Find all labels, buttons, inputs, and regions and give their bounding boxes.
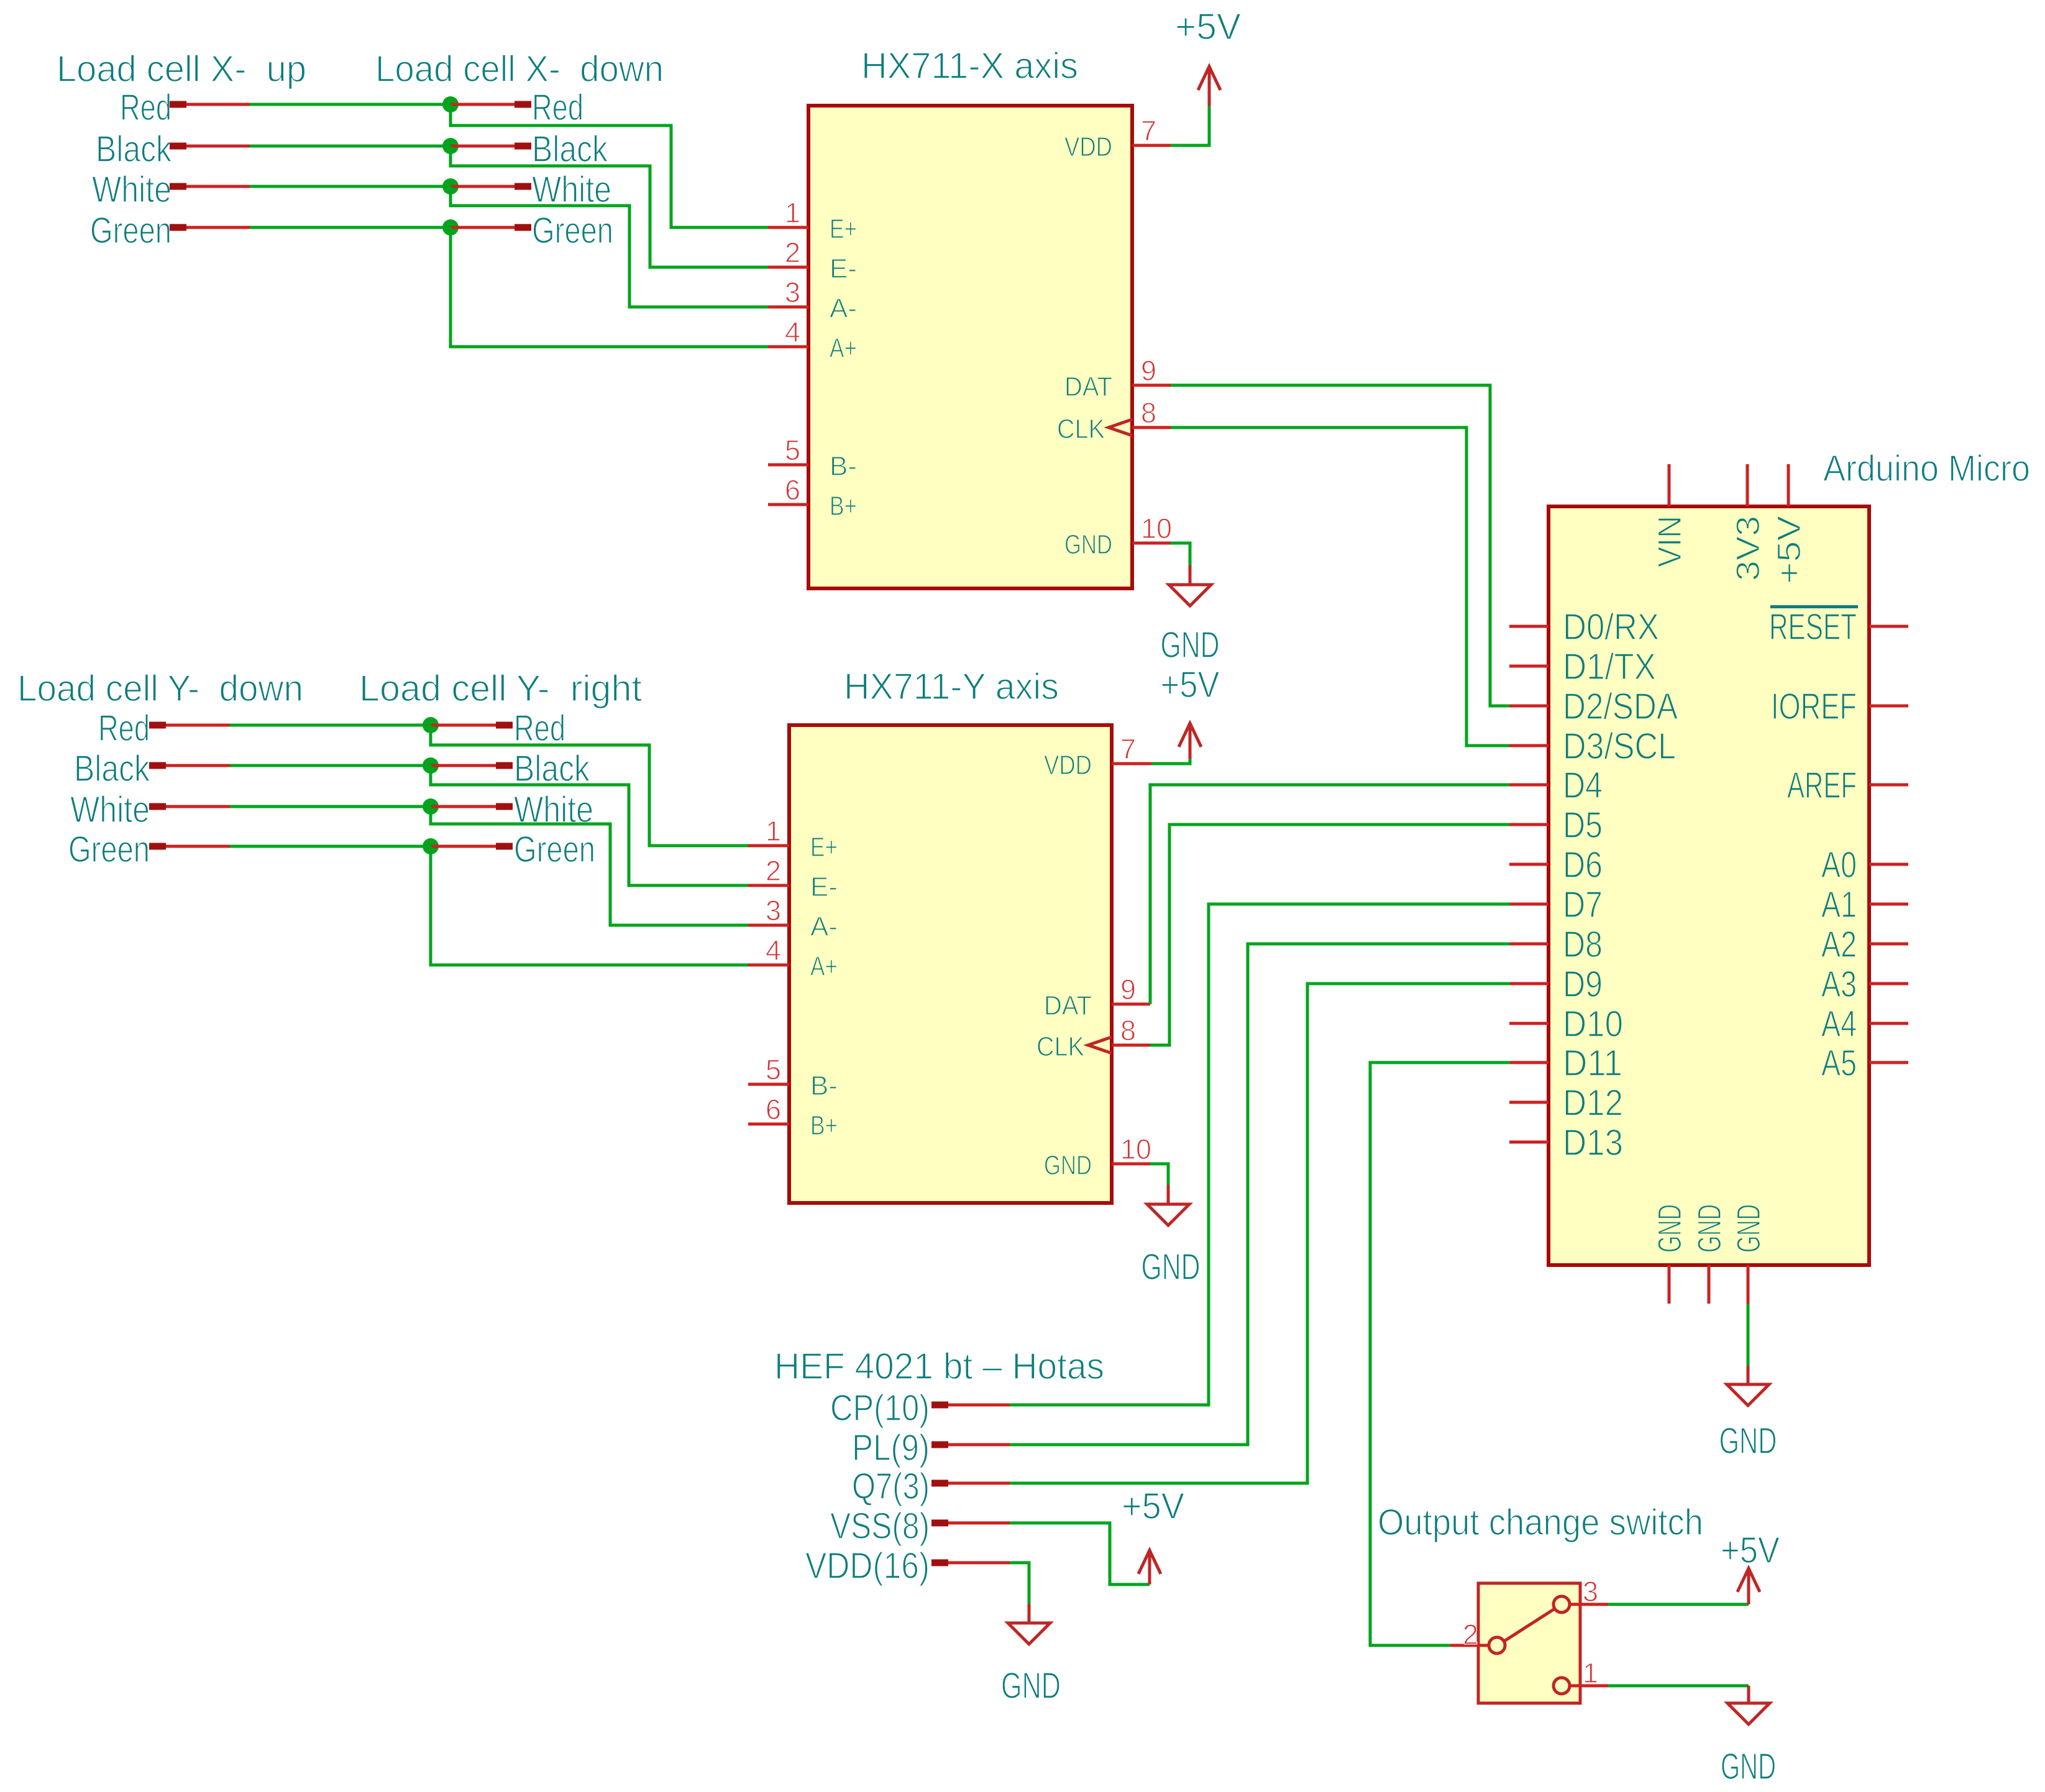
IC U-HX711-X body <box>808 106 1132 588</box>
junction X Green <box>442 219 459 235</box>
load cell X-up pin Black: stub <box>170 143 186 150</box>
power symbol +5V (HX711-Y VDD) <box>1189 726 1192 759</box>
svg-text:Load cell X- up: Load cell X- up <box>57 48 306 89</box>
svg-text:Black: Black <box>96 129 172 170</box>
svg-text:CLK: CLK <box>1057 414 1105 444</box>
wire switch pin 1 to ground <box>1608 1685 1749 1688</box>
power symbol +5V (switch) <box>1747 1571 1750 1604</box>
HX711-X pin 4 (A+) line <box>768 345 808 349</box>
svg-text:7: 7 <box>1120 733 1136 765</box>
svg-text:Black: Black <box>514 748 590 789</box>
wire HX711-X GND to ground <box>1171 543 1190 565</box>
Arduino pin AREF line <box>1869 784 1908 787</box>
svg-text:GND: GND <box>1064 529 1112 560</box>
junction X White <box>442 178 459 194</box>
svg-text:D10: D10 <box>1563 1003 1623 1045</box>
svg-text:VDD: VDD <box>1064 132 1112 162</box>
ground symbol (HX711-X) <box>1189 565 1192 585</box>
Arduino pin RESET line <box>1869 625 1908 628</box>
Arduino pin D10 line <box>1509 1022 1549 1025</box>
svg-text:PL(9): PL(9) <box>852 1427 930 1468</box>
svg-text:A3: A3 <box>1821 964 1857 1005</box>
svg-text:E-: E- <box>830 254 857 284</box>
svg-text:D11: D11 <box>1563 1043 1622 1084</box>
wire X Black junction to HX711-X E- <box>451 146 768 267</box>
svg-text:Green: Green <box>514 829 595 870</box>
wire load-cell-X Black (up to junction) <box>250 145 451 148</box>
HX711-X pin 8 (CLK) line <box>1132 426 1171 429</box>
Arduino pin D11 line <box>1509 1061 1549 1064</box>
switch pin 2 contact circle <box>1489 1637 1505 1653</box>
svg-text:6: 6 <box>766 1094 781 1125</box>
junction X Black <box>442 138 459 154</box>
svg-text:D4: D4 <box>1563 765 1603 806</box>
svg-text:GND: GND <box>1161 624 1220 665</box>
junction Y White <box>423 798 439 815</box>
svg-text:Red: Red <box>120 87 172 128</box>
svg-text:GND: GND <box>1719 1420 1777 1461</box>
svg-text:D2/SDA: D2/SDA <box>1563 686 1678 727</box>
wire HEF4021 VSS(8) to +5V <box>1010 1523 1150 1584</box>
load cell X-up pin White: pin line <box>186 185 250 188</box>
load cell X-up pin Black: pin line <box>186 145 250 148</box>
svg-text:A0: A0 <box>1821 844 1857 885</box>
HX711-X pin 6 (B+) line <box>768 503 808 506</box>
svg-text:Red: Red <box>514 708 565 749</box>
svg-text:A-: A- <box>810 912 838 942</box>
svg-text:Load cell Y- right: Load cell Y- right <box>359 668 642 709</box>
svg-text:White: White <box>532 169 611 210</box>
Arduino pin D13 line <box>1509 1141 1549 1144</box>
HEF4021 pin CP(10): pin line <box>948 1404 1010 1407</box>
wire load-cell-Y Green (down to junction) <box>230 845 431 848</box>
svg-text:A2: A2 <box>1821 924 1857 965</box>
Arduino pin D7 line <box>1509 903 1549 906</box>
Arduino top pin VIN line <box>1668 464 1671 506</box>
load cell X-down pin Red: pin line <box>451 103 515 106</box>
svg-text:A1: A1 <box>1821 884 1857 925</box>
svg-text:A5: A5 <box>1821 1043 1857 1084</box>
Arduino pin IOREF line <box>1869 705 1908 708</box>
svg-text:+5V: +5V <box>1771 515 1808 584</box>
wire load-cell-X Red (up to junction) <box>250 103 451 106</box>
RESET overline <box>1770 605 1858 608</box>
wire HX711-X VDD to +5V <box>1171 106 1209 145</box>
wire Y Red junction to HX711-Y E+ <box>431 725 748 846</box>
switch pin 2 line <box>1450 1644 1489 1647</box>
wire Y Black junction to HX711-Y E- <box>431 766 748 885</box>
load cell Y-down pin Red: stub <box>149 722 166 729</box>
wire HEF4021 CP(10) to Arduino D7 <box>1010 904 1510 1405</box>
wire +5V to HX711-Y VDD <box>1151 759 1190 764</box>
svg-text:3V3: 3V3 <box>1730 516 1767 581</box>
svg-text:DAT: DAT <box>1064 372 1112 402</box>
ground symbol (HX711-Y) <box>1167 1185 1170 1204</box>
ground symbol (HEF4021 VDD) <box>1028 1604 1031 1623</box>
svg-text:9: 9 <box>1141 355 1156 386</box>
load cell Y-right pin Black: stub <box>496 762 513 769</box>
svg-text:3: 3 <box>1583 1576 1598 1607</box>
svg-text:GND: GND <box>1691 1204 1728 1253</box>
svg-text:8: 8 <box>1141 397 1156 429</box>
svg-text:+5V: +5V <box>1161 664 1220 705</box>
load cell X-up pin Green: pin line <box>186 226 250 229</box>
load cell X-down pin White: pin line <box>451 185 515 188</box>
svg-text:5: 5 <box>766 1054 781 1086</box>
load cell Y-down pin Black: stub <box>149 762 166 769</box>
svg-text:VSS(8): VSS(8) <box>830 1506 930 1547</box>
svg-text:E+: E+ <box>830 214 857 244</box>
load cell Y-right pin White: pin line <box>431 805 496 808</box>
HX711-X pin 9 (DAT) line <box>1132 384 1171 387</box>
switch pin 3 contact circle <box>1553 1596 1570 1612</box>
svg-text:1: 1 <box>766 815 781 847</box>
svg-text:7: 7 <box>1141 115 1156 147</box>
ground symbol (Arduino) <box>1747 1366 1750 1384</box>
wire HX711-Y CLK to Arduino D5 <box>1150 825 1510 1045</box>
svg-text:Arduino Micro: Arduino Micro <box>1823 448 2030 489</box>
svg-text:D7: D7 <box>1563 884 1603 925</box>
Arduino pin D8 line <box>1509 943 1549 946</box>
Arduino pin A4 line <box>1869 1022 1908 1025</box>
svg-text:A-: A- <box>830 293 857 324</box>
HEF4021 pin VDD(16): stub <box>931 1560 948 1566</box>
Arduino pin D1/TX line <box>1509 665 1549 668</box>
svg-text:Load cell X- down: Load cell X- down <box>375 48 664 89</box>
svg-text:2: 2 <box>766 855 781 887</box>
svg-text:4: 4 <box>766 935 781 966</box>
svg-text:Black: Black <box>532 129 608 170</box>
svg-text:8: 8 <box>1120 1015 1136 1046</box>
wire Arduino D11 to switch pin 2 <box>1370 1063 1510 1645</box>
Arduino pin D3/SCL line <box>1509 744 1549 747</box>
load cell X-down pin Green: pin line <box>451 226 515 229</box>
HX711-Y pin 10 (GND) line <box>1112 1163 1150 1166</box>
svg-text:HX711-Y axis: HX711-Y axis <box>844 666 1059 707</box>
switch pin 3 line <box>1570 1603 1608 1606</box>
svg-text:10: 10 <box>1141 513 1172 544</box>
svg-text:D9: D9 <box>1563 964 1603 1005</box>
load cell X-up pin Green: stub <box>170 224 186 231</box>
svg-text:VIN: VIN <box>1652 516 1688 567</box>
HEF4021 pin VSS(8): pin line <box>948 1522 1010 1525</box>
power symbol +5V (HX711-X VDD) <box>1208 69 1211 106</box>
HX711-Y pin 9 (DAT) line <box>1112 1003 1150 1006</box>
load cell X-down pin Green: stub <box>515 224 531 231</box>
IC Arduino Micro body <box>1549 506 1869 1265</box>
svg-text:VDD(16): VDD(16) <box>805 1545 930 1586</box>
svg-text:B-: B- <box>810 1071 838 1101</box>
load cell X-up pin White: stub <box>170 183 186 190</box>
HX711-Y pin 3 (A-) line <box>748 924 789 927</box>
IC U-HX711-Y body <box>789 725 1112 1203</box>
svg-text:CLK: CLK <box>1036 1031 1084 1062</box>
svg-text:D0/RX: D0/RX <box>1563 606 1659 647</box>
wire HX711-X CLK to Arduino D3/SCL <box>1171 427 1510 746</box>
svg-text:Q7(3): Q7(3) <box>852 1466 930 1507</box>
load cell X-up pin Red: stub <box>170 101 186 108</box>
wire Y White junction to HX711-Y A- <box>431 807 748 925</box>
svg-text:GND: GND <box>1731 1204 1767 1253</box>
HEF4021 pin VSS(8): stub <box>931 1520 948 1527</box>
HX711-Y pin 8 (CLK) line <box>1112 1044 1150 1047</box>
svg-text:Green: Green <box>68 829 150 870</box>
svg-text:Red: Red <box>532 87 583 128</box>
Arduino pin D2/SDA line <box>1509 705 1549 708</box>
load cell X-down pin Red: stub <box>515 101 531 108</box>
load cell Y-right pin Red: stub <box>496 722 513 729</box>
junction Y Green <box>423 838 439 854</box>
Arduino pin A3 line <box>1869 982 1908 985</box>
HEF4021 pin PL(9): pin line <box>948 1443 1010 1447</box>
svg-text:AREF: AREF <box>1787 765 1857 806</box>
svg-text:+5V: +5V <box>1721 1530 1780 1571</box>
wire HX711-Y DAT to Arduino D4 <box>1150 785 1510 1004</box>
switch pin 1 contact circle <box>1553 1678 1570 1694</box>
svg-text:D3/SCL: D3/SCL <box>1563 726 1676 767</box>
wire load-cell-Y Black (down to junction) <box>230 764 431 767</box>
load cell Y-right pin White: stub <box>496 803 513 810</box>
svg-text:3: 3 <box>785 277 800 308</box>
svg-text:HX711-X axis: HX711-X axis <box>861 45 1078 86</box>
svg-text:D5: D5 <box>1563 805 1603 846</box>
svg-text:GND: GND <box>1652 1204 1688 1253</box>
HX711-Y pin 2 (E-) line <box>748 884 789 887</box>
svg-text:B+: B+ <box>810 1110 838 1141</box>
Arduino bottom pin GND1 line <box>1668 1265 1671 1304</box>
svg-text:Red: Red <box>98 708 150 749</box>
wire X Red junction to HX711-X E+ <box>451 104 768 227</box>
load cell Y-down pin Green: stub <box>149 843 166 850</box>
switch pin 1 line <box>1570 1685 1608 1688</box>
wire HEF4021 Q7(3) to Arduino D9 <box>1010 984 1510 1483</box>
svg-text:10: 10 <box>1120 1133 1151 1165</box>
svg-text:A+: A+ <box>830 333 857 363</box>
svg-text:IOREF: IOREF <box>1771 686 1857 727</box>
svg-text:A+: A+ <box>810 951 838 982</box>
svg-text:A4: A4 <box>1821 1003 1857 1045</box>
switch SW1 body <box>1478 1583 1580 1703</box>
Arduino top pin 3V3 line <box>1746 464 1749 506</box>
svg-text:CP(10): CP(10) <box>830 1387 930 1429</box>
HX711-Y CLK clock triangle <box>1088 1037 1112 1053</box>
svg-text:+5V: +5V <box>1122 1486 1185 1527</box>
load cell Y-down pin Red: pin line <box>166 724 230 727</box>
load cell Y-down pin Black: pin line <box>166 764 230 767</box>
Arduino pin D9 line <box>1509 982 1549 985</box>
load cell Y-right pin Green: stub <box>496 843 513 850</box>
HEF4021 pin VDD(16): pin line <box>948 1561 1010 1565</box>
svg-text:B+: B+ <box>830 491 857 521</box>
svg-text:+5V: +5V <box>1175 6 1242 47</box>
Arduino top pin +5V line <box>1787 464 1790 506</box>
HEF4021 pin PL(9): stub <box>931 1442 948 1448</box>
HX711-X pin 10 (GND) line <box>1132 542 1171 545</box>
load cell X-down pin Black: pin line <box>451 145 515 148</box>
wire load-cell-Y Red (down to junction) <box>230 724 431 727</box>
svg-text:GND: GND <box>1141 1246 1201 1287</box>
load cell Y-right pin Red: pin line <box>431 724 496 727</box>
wire Y Green junction to HX711-Y A+ <box>431 846 748 965</box>
HX711-X pin 5 (B-) line <box>768 464 808 467</box>
svg-text:White: White <box>70 789 150 830</box>
svg-text:2: 2 <box>785 237 800 268</box>
HX711-Y pin 7 (VDD) line <box>1112 762 1151 766</box>
junction Y Black <box>423 757 439 774</box>
HX711-Y pin 1 (E+) line <box>748 844 789 848</box>
load cell X-down pin White: stub <box>515 183 531 190</box>
load cell Y-down pin White: pin line <box>166 805 230 808</box>
ground symbol (switch) <box>1747 1686 1750 1703</box>
load cell X-up pin Red: pin line <box>186 103 250 106</box>
svg-text:HEF 4021 bt – Hotas: HEF 4021 bt – Hotas <box>774 1346 1104 1387</box>
load cell Y-down pin Green: pin line <box>166 845 230 848</box>
svg-text:B-: B- <box>830 451 857 482</box>
HX711-X pin 7 (VDD) line <box>1132 144 1171 147</box>
HX711-Y pin 5 (B-) line <box>748 1083 789 1086</box>
svg-text:GND: GND <box>1044 1150 1092 1181</box>
Arduino bottom pin GND2 line <box>1708 1265 1711 1304</box>
load cell Y-right pin Green: pin line <box>431 845 496 848</box>
wire HX711-X DAT to Arduino D2/SDA <box>1171 385 1510 706</box>
svg-text:GND: GND <box>1001 1665 1061 1706</box>
HX711-X CLK clock triangle <box>1109 419 1132 436</box>
svg-text:DAT: DAT <box>1044 990 1092 1021</box>
Arduino pin A0 line <box>1869 863 1908 866</box>
svg-text:E+: E+ <box>810 832 838 862</box>
wire HEF4021 PL(9) to Arduino D8 <box>1010 944 1510 1445</box>
svg-text:D1/TX: D1/TX <box>1563 646 1656 687</box>
junction X Red <box>442 96 459 112</box>
wire load-cell-X White (up to junction) <box>250 185 451 188</box>
svg-text:4: 4 <box>785 316 800 348</box>
svg-text:D12: D12 <box>1563 1082 1623 1123</box>
svg-text:1: 1 <box>785 197 800 229</box>
Arduino pin A5 line <box>1869 1061 1908 1064</box>
svg-text:Load cell Y- down: Load cell Y- down <box>17 668 303 709</box>
wire HEF4021 VDD(16) to ground <box>1010 1563 1029 1604</box>
svg-text:1: 1 <box>1583 1657 1598 1689</box>
svg-text:E-: E- <box>810 872 838 902</box>
svg-text:2: 2 <box>1463 1619 1478 1650</box>
Arduino bottom pin GND3 line <box>1747 1265 1750 1304</box>
HEF4021 pin Q7(3): stub <box>931 1480 948 1487</box>
wire switch pin 3 to +5V <box>1608 1603 1749 1606</box>
svg-text:5: 5 <box>785 434 800 466</box>
svg-text:VDD: VDD <box>1044 750 1092 780</box>
HX711-Y pin 6 (B+) line <box>748 1123 789 1126</box>
Arduino pin D12 line <box>1509 1101 1549 1104</box>
junction Y Red <box>423 717 439 733</box>
HX711-X pin 1 (E+) line <box>768 226 808 229</box>
svg-text:9: 9 <box>1120 974 1136 1005</box>
svg-text:Green: Green <box>532 210 613 251</box>
svg-text:GND: GND <box>1721 1746 1776 1787</box>
svg-text:6: 6 <box>785 474 800 506</box>
wire X White junction to HX711-X A- <box>451 186 768 307</box>
HX711-Y pin 4 (A+) line <box>748 964 789 967</box>
svg-text:D6: D6 <box>1563 844 1603 885</box>
wire Arduino GND3 to ground <box>1747 1304 1750 1366</box>
wire load-cell-Y White (down to junction) <box>230 805 431 808</box>
load cell X-down pin Black: stub <box>515 143 531 150</box>
HEF4021 pin Q7(3): pin line <box>948 1482 1010 1485</box>
Arduino pin D0/RX line <box>1509 625 1549 628</box>
svg-text:RESET: RESET <box>1769 606 1857 647</box>
svg-text:Output change switch: Output change switch <box>1378 1502 1703 1543</box>
wire HX711-Y GND to ground <box>1150 1164 1168 1185</box>
svg-text:Green: Green <box>90 210 172 251</box>
Arduino pin D5 line <box>1509 823 1549 826</box>
load cell Y-down pin White: stub <box>149 803 166 810</box>
wire load-cell-X Green (up to junction) <box>250 226 451 229</box>
switch lever (2 to 3) <box>1504 1609 1555 1641</box>
Arduino pin D4 line <box>1509 784 1549 787</box>
HX711-X pin 3 (A-) line <box>768 306 808 309</box>
svg-text:D8: D8 <box>1563 924 1603 965</box>
Arduino pin A1 line <box>1869 903 1908 906</box>
Arduino pin D6 line <box>1509 863 1549 866</box>
HX711-X pin 2 (E-) line <box>768 266 808 269</box>
power symbol +5V (HEF4021 VSS) <box>1148 1553 1151 1584</box>
HEF4021 pin CP(10): stub <box>931 1402 948 1409</box>
svg-text:Black: Black <box>74 748 150 789</box>
svg-text:D13: D13 <box>1563 1122 1623 1163</box>
svg-text:White: White <box>92 169 172 210</box>
wire X Green junction to HX711-X A+ <box>451 227 768 347</box>
load cell Y-right pin Black: pin line <box>431 764 496 767</box>
Arduino pin A2 line <box>1869 943 1908 946</box>
svg-text:3: 3 <box>766 895 781 926</box>
